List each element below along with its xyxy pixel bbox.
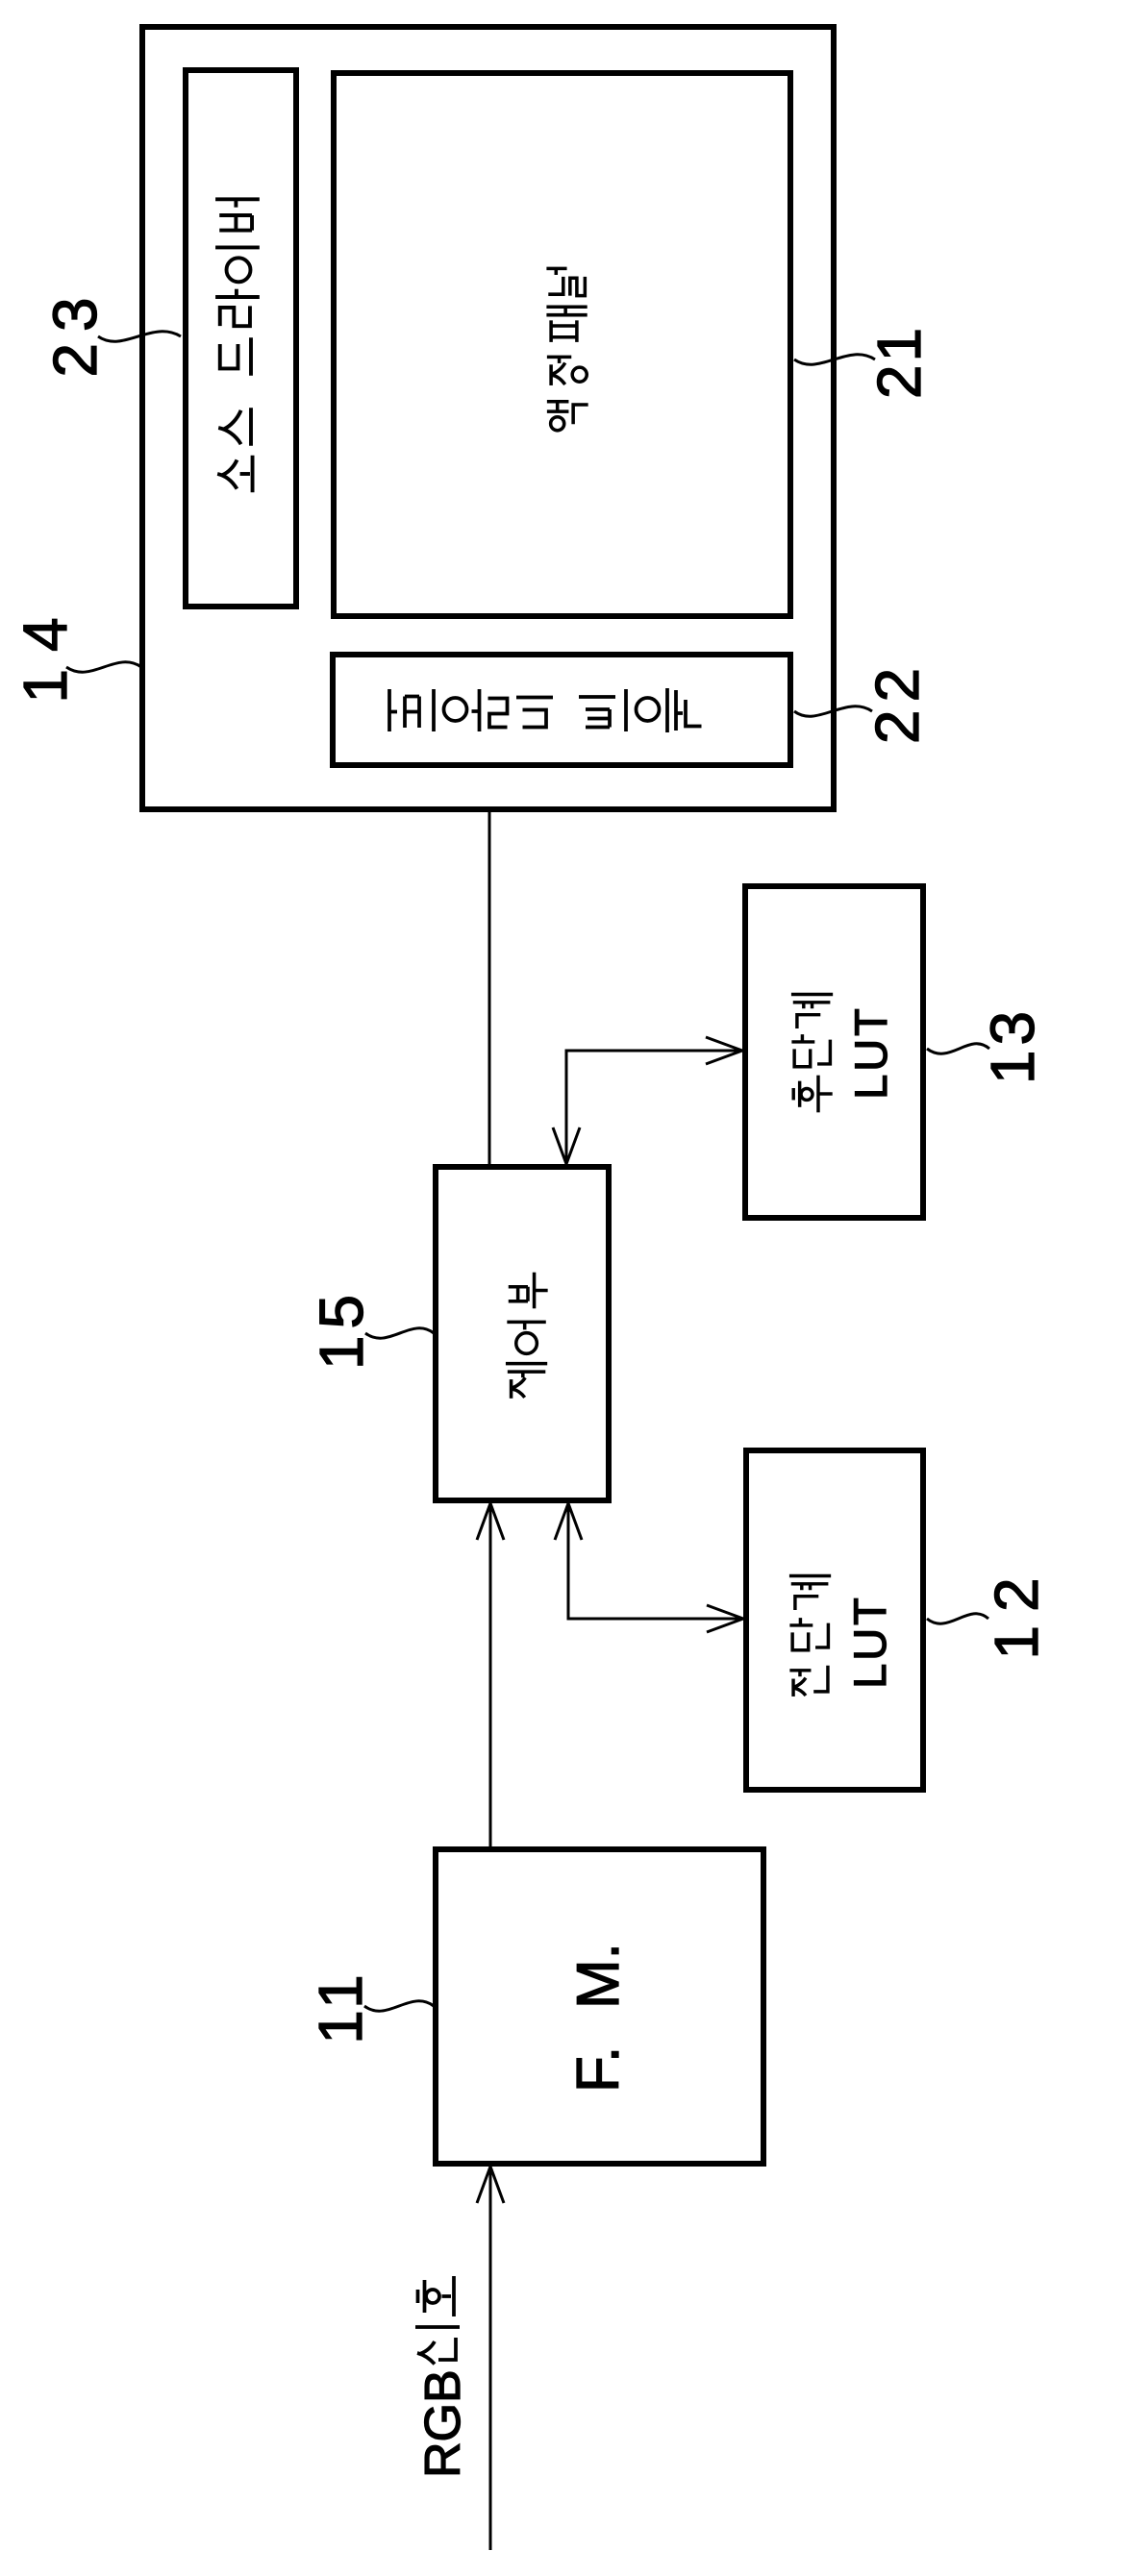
text gate driver (geiteu deuraibeo), vertical reading bottom-to-top — [389, 688, 702, 732]
block 23 source driver box — [186, 70, 296, 607]
leader squiggle 21 — [794, 355, 875, 364]
leader squiggle 14 — [66, 662, 141, 672]
leader squiggle 13 — [927, 1044, 989, 1053]
arrowhead into pre-stage LUT top edge — [707, 1605, 743, 1632]
text jeondan-gye (pre-stage) — [789, 1576, 831, 1697]
leader squiggle 12 — [927, 1614, 988, 1623]
text hudan-gye (post-stage) — [791, 995, 833, 1113]
arrowhead into controller left edge — [477, 1503, 504, 1540]
block 11 frame memory box — [436, 1849, 763, 2164]
arrowhead into controller left edge from pre-stage LUT — [555, 1503, 582, 1540]
leader squiggle 22 — [794, 706, 872, 716]
wire controller to display module — [488, 809, 491, 1164]
text LCD panel (aekjeongpaeneol) — [546, 268, 587, 430]
block 22 gate driver box — [333, 655, 790, 765]
svg-text:RGB: RGB — [415, 2369, 471, 2478]
block 15 controller box (jeeobu) — [436, 1167, 609, 1500]
block 12 pre-stage LUT box — [746, 1450, 923, 1790]
svg-text:LUT: LUT — [845, 1005, 896, 1100]
svg-text:22: 22 — [862, 660, 932, 744]
wire RGB input line — [489, 2170, 492, 2550]
svg-text:F.: F. — [565, 2046, 632, 2093]
svg-text:12: 12 — [982, 1564, 1051, 1659]
svg-text:13: 13 — [978, 1006, 1047, 1084]
arrowhead into controller right edge — [553, 1127, 580, 1164]
svg-text:14: 14 — [11, 600, 80, 703]
leader squiggle 15 — [365, 1328, 434, 1338]
wire F.M. to controller — [489, 1507, 492, 1846]
arrowhead into F.M. left edge — [477, 2167, 504, 2203]
block 14 display module outer box — [142, 27, 834, 809]
block 13 post-stage LUT box — [745, 886, 923, 1218]
svg-text:M.: M. — [565, 1943, 632, 2009]
leader squiggle 23 — [98, 332, 181, 341]
wire controller to pre-stage LUT elbow — [568, 1507, 739, 1619]
text source driver (soseu deuraibeo) — [215, 199, 260, 492]
text controller (jeeobu) — [506, 1273, 548, 1399]
arrowhead into post-stage LUT top edge — [706, 1037, 742, 1064]
wire controller to post-stage LUT elbow — [566, 1051, 738, 1160]
leader squiggle 11 — [364, 2001, 434, 2011]
block 21 LCD panel box — [334, 73, 790, 616]
svg-text:21: 21 — [864, 325, 934, 399]
svg-text:LUT: LUT — [844, 1595, 895, 1689]
svg-text:23: 23 — [40, 285, 110, 377]
svg-text:15: 15 — [307, 1288, 376, 1370]
text RGB signal label (RGB sinho) — [415, 2276, 471, 2478]
